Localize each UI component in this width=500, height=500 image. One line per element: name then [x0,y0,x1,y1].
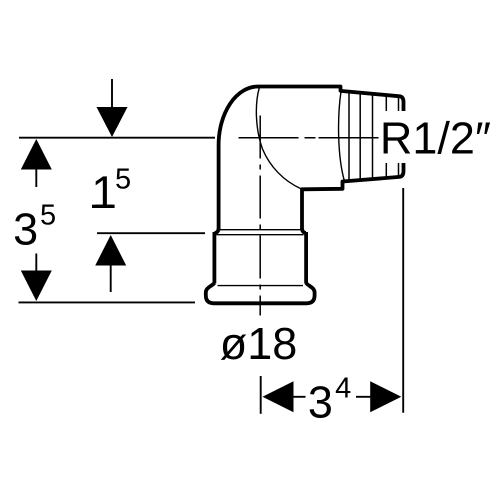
svg-text:ø18: ø18 [220,318,298,369]
extension line from thread end [402,188,404,413]
thread line 4 [385,95,387,178]
dim 3_4 right arrow [370,381,401,412]
svg-text:5: 5 [115,163,131,195]
socket mouth thin line 1 [217,229,303,231]
stem above arrow [111,79,113,108]
serif bar under 1 of 18 [251,356,267,359]
thread line 3 [372,94,374,179]
elbow inner seam arc [256,87,300,189]
dim 3_4 left arrow [263,381,294,412]
dim 3_4 right stem [356,396,371,398]
dim 3_4 left stem [293,396,306,398]
arrow down to line C (dim 3_5) [21,271,52,302]
vertical centerline of socket branch [259,116,261,316]
stem below arrow [110,265,112,293]
socket right wall [304,232,308,284]
socket mouth thin line 2 [217,234,304,236]
thread line 1 [348,92,350,181]
dimension line C (bottom reference) [19,301,196,303]
thread line 5 [398,96,400,176]
svg-text:1: 1 [91,166,117,218]
bead top thin line [218,285,304,287]
stem below up-arrow [35,169,37,188]
svg-text:3: 3 [13,204,38,255]
svg-text:R1/2″: R1/2″ [380,113,491,164]
stem above down-arrow [35,254,37,272]
socket step right [302,228,306,233]
white box behind R1/2 label [379,111,498,163]
svg-text:3: 3 [308,376,333,427]
dimension line B (socket mouth reference) [97,232,205,234]
horizontal centerline of threaded branch [239,137,380,139]
svg-text:5: 5 [40,200,56,232]
socket step left [214,228,218,233]
svg-text:4: 4 [335,373,351,405]
thread line 2 [359,93,361,180]
dimension line A (top reference) [19,137,215,139]
hub-thread junction curve [339,92,345,182]
serif bar under 1 of dim 1_5 [92,205,113,208]
socket left wall [212,232,216,284]
extension line below socket centerline [260,376,262,414]
arrow up to line A (dim 3_5) [21,139,52,170]
press bead outline [206,283,315,303]
arrow down onto line A (dim 1_5) [97,107,128,137]
arrow up onto line B (dim 1_5) [95,235,126,266]
elbow fitting outer contour [219,87,404,230]
serif bar under 1 of R1/2 [416,150,433,153]
